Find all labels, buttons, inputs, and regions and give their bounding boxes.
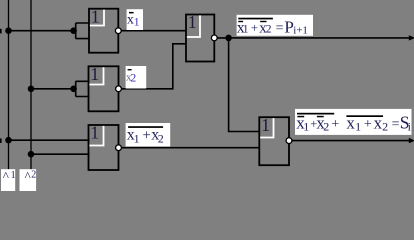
wire x1 bus to U1 inputs [9, 23, 90, 39]
wire x2 bus to U3 input 2 [31, 153, 90, 155]
NOR gate U2 (inverter for x2) [89, 64, 122, 111]
label box x1-bar at U1 output [127, 9, 143, 30]
svg-text:^: ^ [3, 169, 9, 184]
svg-text:2: 2 [158, 131, 164, 145]
svg-text:2: 2 [266, 23, 272, 35]
svg-text:1: 1 [11, 170, 16, 181]
svg-text:^: ^ [25, 169, 31, 184]
svg-text:+: + [143, 127, 151, 143]
wire U4 output junction down to U5 input 1 [229, 38, 260, 132]
label box NOT(NOT x1 + NOT x2) = P(i+1) at U4 output [237, 15, 313, 37]
svg-text:+: + [331, 117, 339, 132]
wire U5 output to right edge (S output) [292, 140, 412, 142]
input terminal box x2 [20, 169, 37, 191]
wire x2 bus to U2 inputs [31, 81, 90, 96]
label box NOT(x1+x2) at U3 output [126, 123, 171, 147]
label box x2-bar at U2 output [126, 66, 147, 89]
left-edge remnant node x1 lower [0, 138, 2, 143]
svg-text:=: = [276, 21, 284, 36]
svg-text:2: 2 [130, 71, 136, 85]
NOR gate U5 (sum S) [259, 115, 292, 165]
svg-text:1: 1 [243, 23, 249, 35]
wire U1 output to U4 input 1 [121, 30, 186, 32]
junction node U1 input bracket [70, 27, 77, 34]
wire U3 output to U5 input 2 [122, 147, 260, 149]
svg-text:+: + [364, 117, 372, 132]
junction node U2 input bracket [70, 86, 77, 93]
NOR gate U4 (carry P) [186, 12, 217, 61]
net x1 vertical bus [8, 0, 10, 169]
svg-text:2: 2 [382, 119, 388, 133]
svg-text:1: 1 [90, 123, 99, 143]
wire x1 bus to U3 input 1 [9, 139, 90, 141]
junction node x1 bus / U3 wire [5, 137, 12, 144]
junction node x2 bus / U2 wire [28, 86, 35, 93]
arrowhead S output [409, 138, 414, 143]
label box sum equation = S(i) at U5 output [295, 109, 412, 135]
net x2 vertical bus [30, 0, 32, 169]
NOR gate U3 (x1+x2) [89, 123, 122, 170]
junction node P wire / U5 branch [225, 35, 232, 42]
svg-text:2: 2 [323, 119, 329, 133]
svg-text:1: 1 [91, 6, 100, 26]
left-edge remnant node x1 [0, 29, 2, 34]
NOR gate U1 (inverter for x1) [89, 6, 121, 52]
svg-text:1: 1 [302, 25, 308, 37]
svg-text:=: = [392, 117, 400, 132]
wire U2 output to U4 input 2 [122, 44, 187, 89]
svg-text:1: 1 [261, 115, 270, 135]
wire U4 output to right edge (P output) [218, 37, 413, 39]
svg-text:2: 2 [31, 170, 36, 181]
svg-text:x: x [346, 113, 355, 132]
svg-text:+: + [251, 21, 258, 35]
svg-text:1: 1 [134, 14, 140, 28]
svg-text:1: 1 [188, 12, 197, 32]
arrowhead P output [409, 35, 414, 40]
junction node x2 bus / U3 wire [28, 151, 35, 158]
junction node x1 bus / U1 wire [5, 27, 12, 34]
input terminal box x1 [1, 169, 16, 191]
svg-text:1: 1 [134, 131, 140, 145]
svg-text:1: 1 [355, 119, 361, 133]
svg-text:1: 1 [303, 119, 309, 133]
svg-text:1: 1 [90, 64, 99, 84]
